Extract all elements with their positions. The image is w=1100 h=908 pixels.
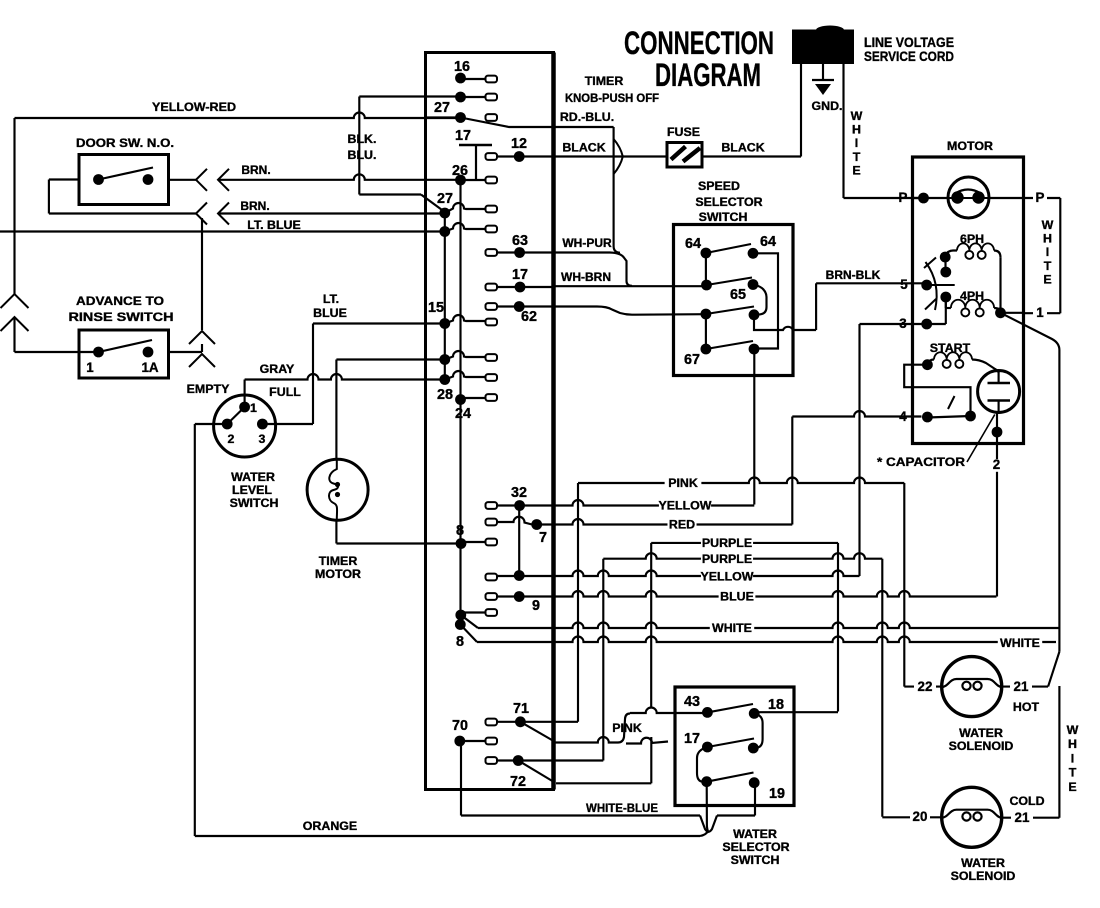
- svg-text:SOLENOID: SOLENOID: [949, 739, 1014, 753]
- svg-text:EMPTY: EMPTY: [187, 382, 230, 396]
- wire service cord to fuse (BLACK): [800, 64, 802, 157]
- svg-text:SWITCH: SWITCH: [731, 853, 780, 867]
- timer internal link 32-32b: [518, 505, 520, 576]
- label CAPACITOR: [877, 415, 995, 470]
- svg-text:LT.: LT.: [323, 292, 339, 306]
- label PINK: [665, 478, 702, 490]
- wire PINK to 43 (71 blade): [555, 708, 708, 744]
- timer terminal 28/24: [455, 394, 497, 405]
- wire WH-PUR (63 to speed sel): [554, 253, 633, 286]
- svg-text:12: 12: [511, 136, 527, 152]
- svg-text:ADVANCE TO: ADVANCE TO: [76, 294, 164, 308]
- water sel contact 17: [702, 739, 754, 753]
- speed selector contact 65: [748, 279, 767, 314]
- svg-text:* CAPACITOR: * CAPACITOR: [877, 455, 965, 469]
- motor centrifugal arc: [924, 258, 937, 311]
- svg-text:SWITCH: SWITCH: [699, 210, 748, 224]
- svg-text:SWITCH: SWITCH: [230, 496, 279, 510]
- wire 20 to cold solenoid: [882, 816, 941, 818]
- label WHITE vertical (service): [851, 109, 863, 177]
- timer internal bus x445: [444, 213, 446, 380]
- advance to rinse switch box: [79, 330, 169, 378]
- svg-text:16: 16: [454, 59, 470, 75]
- wire purple1 lower leg to timer corner: [556, 737, 651, 783]
- timer terminal 62: [486, 301, 554, 312]
- timer terminal 15: [439, 315, 497, 329]
- wire WHITE service to motor P: [844, 64, 922, 198]
- water sel 17 bracket to lower: [697, 747, 707, 782]
- timer terminal 7: [486, 517, 543, 530]
- svg-text:2: 2: [228, 432, 235, 446]
- timer terminal 17 (mid): [486, 282, 554, 293]
- svg-text:I: I: [855, 136, 858, 150]
- svg-text:FUSE: FUSE: [667, 125, 700, 139]
- rinse switch contacts 1 1A: [93, 340, 153, 357]
- svg-text:BRN.: BRN.: [241, 163, 270, 177]
- motor start bracket: [904, 365, 970, 411]
- svg-text:RD.-BLU.: RD.-BLU.: [560, 110, 614, 124]
- svg-text:H: H: [1043, 232, 1052, 246]
- svg-text:BLUE: BLUE: [720, 590, 754, 604]
- wire BLK-BLU from timer to 27: [359, 97, 460, 213]
- svg-text:15: 15: [428, 300, 444, 316]
- svg-text:BLACK: BLACK: [562, 141, 605, 155]
- svg-text:4PH: 4PH: [960, 289, 984, 303]
- svg-text:64: 64: [760, 234, 776, 250]
- connector chevrons BRN lower: [196, 203, 229, 225]
- wire LT BLUE 2 (dot3 to timer 15): [262, 324, 444, 425]
- svg-text:KNOB-PUSH OFF: KNOB-PUSH OFF: [565, 91, 659, 105]
- timer terminal 71: [486, 716, 579, 727]
- wire cold 21 to bus: [1002, 817, 1060, 819]
- motor winding 4PH: [940, 292, 1000, 317]
- svg-text:H: H: [852, 123, 861, 137]
- connector chevrons BRN upper: [196, 169, 229, 191]
- svg-text:63: 63: [512, 233, 528, 249]
- fuse F1: [667, 143, 702, 168]
- label BLUE: [719, 591, 756, 603]
- svg-text:24: 24: [455, 406, 471, 422]
- svg-text:27: 27: [434, 100, 450, 116]
- svg-text:CONNECTION: CONNECTION: [624, 25, 774, 61]
- label TIMER MOTOR: [315, 554, 361, 581]
- wire RED (7 to motor 4): [537, 411, 922, 525]
- label WATER SOLENOID (hot): [949, 726, 1014, 753]
- svg-text:17: 17: [455, 128, 471, 144]
- label WHITE vertical (motor right): [1042, 218, 1054, 286]
- water selector switch box: [675, 687, 794, 806]
- svg-text:ORANGE: ORANGE: [303, 819, 357, 833]
- svg-text:I: I: [1071, 751, 1074, 765]
- svg-text:9: 9: [532, 598, 540, 614]
- svg-text:HOT: HOT: [1013, 700, 1040, 714]
- svg-text:WATER: WATER: [733, 827, 777, 841]
- svg-text:COLD: COLD: [1009, 794, 1044, 808]
- motor terminal 3: [913, 297, 946, 329]
- speed selector contact 67: [701, 341, 754, 354]
- motor box: [913, 157, 1024, 444]
- svg-text:SERVICE CORD: SERVICE CORD: [864, 49, 954, 64]
- svg-text:LINE VOLTAGE: LINE VOLTAGE: [864, 35, 954, 50]
- timer terminal y231 (LT.BLUE): [439, 223, 497, 237]
- water sel contact 19: [749, 777, 760, 788]
- svg-text:T: T: [853, 150, 861, 164]
- svg-text:SELECTOR: SELECTOR: [695, 195, 762, 209]
- svg-text:67: 67: [684, 352, 700, 368]
- label PURPLE (1): [701, 538, 753, 550]
- speed selector contact low-left: [701, 307, 755, 350]
- svg-text:BLK.: BLK.: [348, 132, 377, 146]
- label 22: [914, 681, 936, 694]
- svg-text:RED: RED: [669, 518, 695, 532]
- label ADVANCE TO RINSE SWITCH: [69, 294, 174, 324]
- wire P right bracket: [989, 198, 1060, 313]
- wire WHITE-BLUE (70 to 19): [461, 741, 755, 832]
- svg-text:1: 1: [250, 401, 257, 415]
- service cord block: [792, 26, 854, 65]
- wire YELLOW 2 (32b to motor 3): [519, 571, 859, 576]
- wire YELLOW-RED: [15, 113, 461, 353]
- wire WHITE 2 (8b to solenoid 21): [460, 625, 1056, 643]
- svg-text:8: 8: [456, 634, 464, 650]
- speed selector contact 64 right: [748, 248, 778, 349]
- timer blade from 27 to RD-BLU exit: [461, 118, 554, 128]
- speed selector contact 64 left: [701, 244, 752, 258]
- svg-text:WATER: WATER: [231, 470, 275, 484]
- svg-text:17: 17: [684, 731, 700, 747]
- svg-text:W: W: [1067, 723, 1079, 737]
- svg-text:W: W: [1042, 218, 1054, 232]
- svg-text:E: E: [1068, 780, 1076, 794]
- timer terminal 32: [486, 500, 525, 511]
- svg-text:32: 32: [511, 485, 527, 501]
- wire YELLOW (32 to speed sel 66): [520, 500, 755, 505]
- svg-text:BLU.: BLU.: [348, 148, 377, 162]
- svg-text:28: 28: [437, 387, 453, 403]
- svg-text:GRAY: GRAY: [260, 362, 295, 376]
- water level switch: [214, 395, 276, 457]
- wire 17 to speed sel: [554, 285, 707, 287]
- svg-text:62: 62: [521, 309, 537, 325]
- wire BLACK timer-12 to fuse to service: [554, 155, 802, 157]
- label P right: [1033, 192, 1047, 205]
- svg-text:BLACK: BLACK: [721, 141, 764, 155]
- motor start contact: [965, 411, 976, 422]
- label WATER LEVEL SWITCH: [230, 470, 279, 510]
- label 21 (cold): [1011, 812, 1033, 825]
- timer terminal 72: [486, 755, 524, 766]
- svg-text:BRN-BLK: BRN-BLK: [826, 268, 881, 282]
- timer terminal (BLK-BLU) y97: [455, 92, 497, 103]
- wire GRAY (dot1 to timer): [245, 374, 445, 407]
- wire PURPLE 2 (72 to cold solenoid): [518, 553, 882, 817]
- right WHITE bus: [1048, 350, 1059, 818]
- label YELLOW (2): [701, 571, 753, 583]
- svg-text:LT. BLUE: LT. BLUE: [247, 218, 300, 232]
- water sel contact 43: [702, 704, 753, 718]
- svg-text:W: W: [851, 109, 863, 123]
- connector chevrons on yellow-red vertical: [1, 294, 29, 331]
- svg-text:WHITE: WHITE: [1000, 636, 1040, 650]
- label WHITE (bundle): [710, 623, 754, 635]
- wire capacitor 2 to blue: [992, 412, 1003, 597]
- timer terminal 9 (y596): [486, 591, 525, 602]
- wire PINK: [578, 478, 904, 484]
- svg-text:PURPLE: PURPLE: [702, 536, 752, 550]
- door switch N.O. box: [79, 155, 169, 205]
- label 21 (hot): [1010, 681, 1032, 694]
- svg-text:43: 43: [684, 694, 700, 710]
- svg-text:WHITE: WHITE: [712, 621, 752, 635]
- speed selector contact mid-left: [701, 253, 752, 290]
- label WHITE (right): [998, 638, 1042, 650]
- wire WHITE 1 (8a to right bus): [461, 615, 1060, 628]
- svg-text:WH-BRN: WH-BRN: [561, 270, 611, 284]
- svg-text:DIAGRAM: DIAGRAM: [655, 57, 761, 93]
- timer block outline: [426, 53, 554, 790]
- svg-text:P: P: [1036, 190, 1045, 205]
- timer internal bus x460: [459, 180, 461, 625]
- svg-text:PINK: PINK: [668, 476, 698, 490]
- motor junction 1: [995, 307, 1023, 318]
- ground GND: [812, 64, 834, 95]
- wire timer motor top to timer: [336, 360, 444, 461]
- speed selector contact low-right: [749, 309, 793, 330]
- svg-text:7: 7: [539, 530, 547, 546]
- svg-text:70: 70: [452, 718, 468, 734]
- wire RD-BLU vertical: [554, 127, 621, 253]
- timer terminal 8 (y543): [456, 538, 497, 549]
- timer terminal 27 y117: [426, 112, 498, 123]
- svg-text:GND.: GND.: [812, 99, 843, 113]
- speed selector switch box: [674, 225, 794, 376]
- speed selector contact 66 bottom: [749, 344, 760, 505]
- label RED: [667, 519, 696, 531]
- svg-text:WATER: WATER: [959, 726, 1003, 740]
- svg-text:P: P: [899, 190, 908, 205]
- svg-text:T: T: [1044, 259, 1052, 273]
- wire BLUE (9 to capacitor 2): [519, 591, 996, 596]
- door switch left loop wire: [49, 180, 196, 214]
- wire motor3 to yellow2: [860, 324, 913, 576]
- label 1: [1033, 307, 1047, 320]
- svg-text:SOLENOID: SOLENOID: [951, 869, 1016, 883]
- label WATER SOLENOID (cold): [951, 856, 1016, 883]
- svg-text:T: T: [1069, 766, 1077, 780]
- svg-text:E: E: [852, 163, 860, 177]
- motor winding 6PH: [940, 243, 1001, 312]
- water sel contact lower-left: [701, 773, 753, 788]
- wire water sel 17-chain to orange V: [707, 782, 709, 833]
- timer blade 72: [518, 761, 554, 783]
- svg-text:I: I: [1046, 245, 1049, 259]
- svg-text:71: 71: [513, 701, 529, 717]
- label SPEED SELECTOR SWITCH: [695, 179, 762, 224]
- wire PURPLE 1 (72 blade to water sel 18): [651, 543, 838, 712]
- svg-text:27: 27: [437, 191, 453, 207]
- svg-text:MOTOR: MOTOR: [315, 567, 361, 581]
- svg-text:TIMER: TIMER: [319, 554, 358, 568]
- wire hot 21: [1002, 686, 1048, 688]
- svg-text:RINSE SWITCH: RINSE SWITCH: [69, 310, 174, 324]
- label LINE VOLTAGE SERVICE CORD: [864, 35, 954, 64]
- water sel contact 18: [749, 708, 763, 748]
- timer terminal 12: [486, 151, 554, 162]
- connector chevrons to 1A: [189, 331, 215, 367]
- label LT. BLUE (2): [313, 292, 347, 320]
- wire ORANGE: [195, 831, 708, 836]
- svg-text:SELECTOR: SELECTOR: [722, 840, 789, 854]
- wire 22 to hot solenoid: [904, 483, 941, 687]
- label PURPLE (2): [701, 554, 753, 566]
- svg-text:17: 17: [512, 267, 528, 283]
- svg-text:LEVEL: LEVEL: [232, 483, 272, 497]
- svg-text:26: 26: [452, 163, 468, 179]
- title CONNECTION DIAGRAM: [624, 25, 774, 93]
- svg-text:BLUE: BLUE: [313, 306, 347, 320]
- svg-text:WHITE-BLUE: WHITE-BLUE: [586, 801, 658, 815]
- hot water solenoid: [942, 657, 1002, 717]
- svg-text:6PH: 6PH: [960, 232, 984, 246]
- svg-text:H: H: [1068, 737, 1077, 751]
- connector brace on BLACK wire: [614, 139, 623, 174]
- motor start winding: [922, 352, 999, 373]
- svg-text:22: 22: [918, 679, 933, 694]
- wire rinse 1A to connector: [169, 351, 203, 353]
- svg-text:E: E: [1043, 272, 1051, 286]
- timer terminal y359: [439, 351, 497, 365]
- svg-text:1A: 1A: [141, 360, 158, 375]
- motor terminal 4: [922, 396, 971, 422]
- svg-text:PINK: PINK: [612, 721, 642, 735]
- timer T-bar contact 17: [459, 145, 492, 180]
- svg-text:PURPLE: PURPLE: [702, 552, 752, 566]
- timer terminal 16: [455, 73, 497, 84]
- timer terminal 8a (y615): [455, 609, 497, 620]
- wire dot2 to orange: [195, 424, 227, 836]
- capacitor: [978, 371, 1020, 413]
- wire WH-BRN (62 to speed sel): [554, 307, 706, 315]
- cold water solenoid: [942, 787, 1002, 847]
- label BLK. BLU.: [348, 132, 377, 162]
- timer terminal 63: [486, 247, 554, 258]
- timer terminal 27 (lower): [439, 203, 497, 218]
- svg-text:START: START: [930, 341, 971, 355]
- label YELLOW (1): [659, 500, 711, 512]
- svg-text:WATER: WATER: [961, 856, 1005, 870]
- svg-text:5: 5: [900, 277, 908, 292]
- wire BRN upper (door sw to timer 26): [169, 174, 461, 180]
- door switch contacts: [93, 168, 153, 185]
- motor terminal P: [913, 193, 949, 204]
- svg-text:21: 21: [1015, 810, 1030, 825]
- timer terminal 26: [455, 175, 497, 186]
- wire LT. BLUE (to timer y231): [0, 230, 445, 232]
- svg-text:FULL: FULL: [269, 385, 301, 399]
- wire BRN-BLK (speed sel to motor 5): [793, 283, 924, 330]
- label WHITE vertical (right bus): [1067, 723, 1079, 794]
- wire motor1 diagonal to white bus: [1001, 313, 1060, 350]
- timer terminal y379: [439, 371, 497, 385]
- timer terminal 70: [454, 736, 497, 747]
- svg-text:3: 3: [259, 432, 266, 446]
- wire door loop to rinse 1A: [201, 218, 203, 352]
- svg-text:SPEED: SPEED: [698, 179, 740, 193]
- svg-text:YELLOW: YELLOW: [659, 499, 712, 513]
- timer terminal 8b (y624.5): [455, 619, 466, 630]
- label TIMER KNOB-PUSH OFF: [565, 74, 659, 105]
- label WATER SELECTOR SWITCH: [722, 827, 789, 867]
- svg-text:DOOR SW. N.O.: DOOR SW. N.O.: [76, 136, 174, 150]
- timer terminal 32b (y575): [486, 570, 525, 581]
- svg-text:WH-PUR: WH-PUR: [562, 236, 612, 250]
- svg-text:1: 1: [86, 360, 94, 375]
- wire BRN lower (loop to timer 27): [218, 212, 445, 214]
- svg-text:19: 19: [769, 786, 785, 802]
- svg-text:8: 8: [456, 523, 464, 539]
- svg-text:20: 20: [913, 809, 928, 824]
- svg-text:72: 72: [510, 774, 526, 790]
- svg-text:2: 2: [993, 457, 1000, 472]
- svg-text:21: 21: [1014, 679, 1029, 694]
- svg-text:TIMER: TIMER: [585, 74, 624, 88]
- svg-text:MOTOR: MOTOR: [947, 139, 993, 153]
- svg-text:18: 18: [768, 697, 784, 713]
- label 2: [990, 459, 1003, 472]
- svg-text:YELLOW-RED: YELLOW-RED: [152, 100, 236, 114]
- timer blade 71: [520, 722, 554, 742]
- svg-text:64: 64: [685, 236, 701, 252]
- svg-text:1: 1: [1036, 305, 1044, 320]
- timer motor: [307, 459, 368, 520]
- svg-text:BRN.: BRN.: [240, 199, 269, 213]
- label 20: [910, 811, 930, 824]
- svg-text:4: 4: [899, 409, 907, 424]
- wire PINK vertical from 71: [577, 483, 579, 722]
- svg-text:YELLOW: YELLOW: [701, 570, 754, 584]
- wire timer motor bottom to timer 8: [336, 520, 461, 544]
- water sel contact mid-right: [748, 743, 759, 754]
- svg-text:65: 65: [730, 287, 746, 303]
- motor protector circle: [948, 177, 989, 218]
- motor terminal 5: [921, 280, 954, 291]
